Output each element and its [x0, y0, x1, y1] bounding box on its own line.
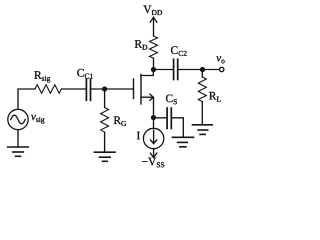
capacitor CS	[167, 108, 171, 128]
node drain	[151, 67, 156, 72]
ground CS	[173, 137, 194, 147]
transistor Q1 source lead	[141, 94, 154, 117]
resistor RD	[150, 36, 158, 58]
wire to vo terminal	[203, 69, 220, 71]
wire CS to ground	[171, 118, 183, 138]
resistor RL	[198, 77, 206, 102]
wire CC1 to gate	[91, 88, 134, 90]
wire vsig top riser	[18, 89, 35, 109]
resistor RG	[101, 108, 109, 133]
wire CC2 to output node	[178, 69, 203, 71]
node gate	[102, 86, 107, 91]
wire vsig bottom	[17, 130, 19, 147]
VDD arrow	[150, 17, 157, 36]
transistor Q1 gate plate	[133, 79, 135, 99]
current source I	[143, 128, 163, 148]
wire RL to ground	[201, 102, 203, 125]
capacitor CC1	[86, 79, 90, 100]
resistor Rsig	[35, 85, 61, 94]
wire source node to CS	[154, 117, 167, 119]
terminal vo	[220, 67, 224, 71]
transistor Q1 channel	[140, 75, 142, 105]
wire RL top	[201, 70, 203, 78]
node source	[151, 115, 156, 120]
VSS arrow	[150, 149, 156, 158]
ground RG	[94, 152, 115, 161]
wire Rsig to CC1	[61, 88, 86, 90]
ground vsig	[8, 147, 29, 156]
voltage source vsig	[8, 109, 28, 129]
wire gate node down	[104, 89, 106, 108]
ground RL	[193, 125, 213, 135]
wire RD bottom	[153, 58, 155, 69]
node output	[200, 67, 205, 72]
capacitor CC2	[174, 59, 178, 79]
wire source node to current source	[153, 118, 155, 129]
wire drain to CC2	[154, 69, 174, 71]
svg-text:I: I	[136, 130, 140, 142]
wire RG to ground	[104, 132, 106, 152]
transistor Q1 drain lead	[141, 70, 153, 76]
